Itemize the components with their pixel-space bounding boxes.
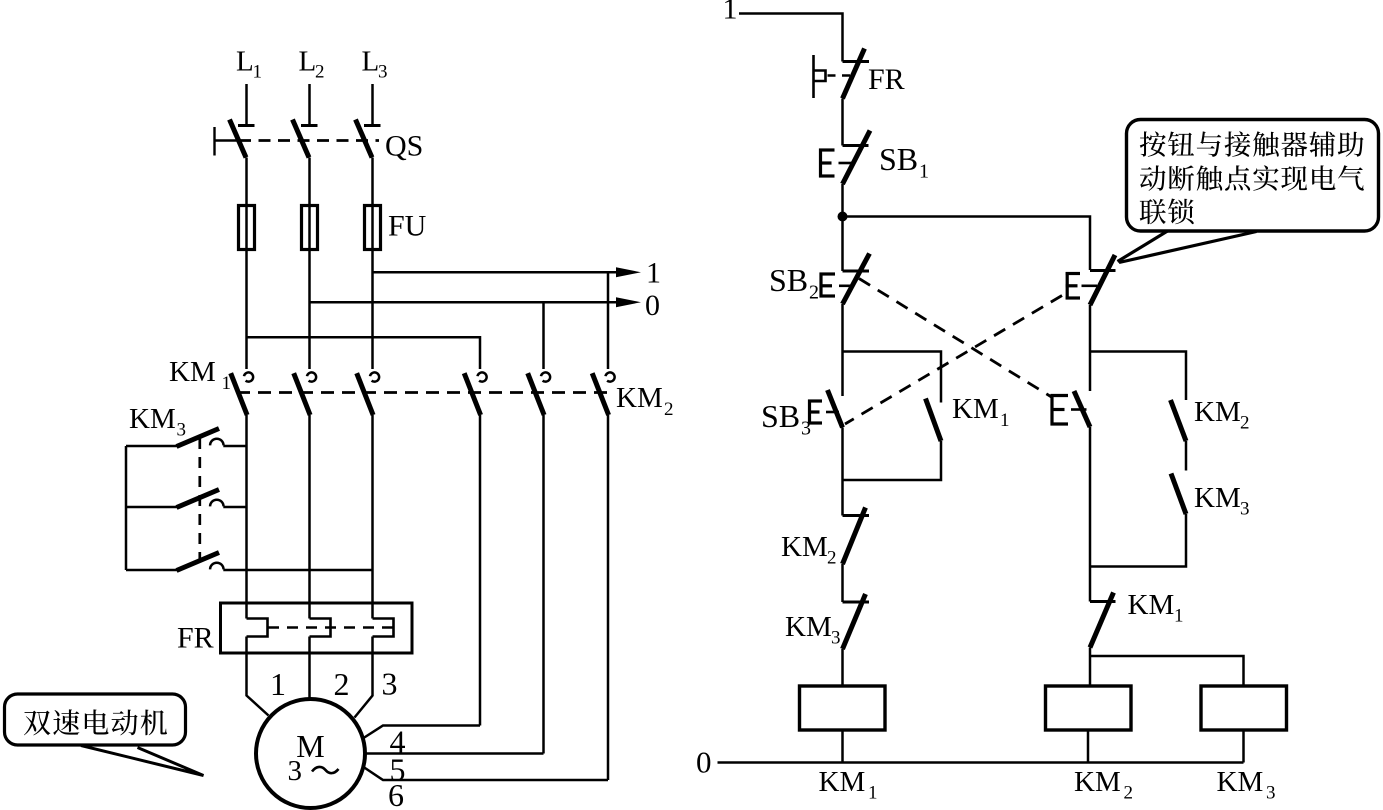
svg-text:0: 0 [645,289,660,322]
wire KM2 pole1 down [479,415,482,726]
wire branch to coil KM3 [1090,656,1244,686]
wire bus1 drop to KM2 [607,272,610,369]
wire node A to right branch [843,217,1091,271]
wire phase3 down [371,415,374,619]
svg-text:KM: KM [1217,766,1264,798]
svg-text:2: 2 [1240,413,1250,434]
contactor KM2 pole2 [541,372,550,381]
contactor KM2 pole3 [606,372,615,381]
fuse FU 3 [365,206,381,250]
svg-text:QS: QS [385,130,423,163]
fuse FU 2 [302,206,318,250]
wire coil KM2 to bus [1087,730,1090,763]
svg-text:KM: KM [1128,589,1175,621]
coil KM1 [800,686,886,730]
svg-text:2: 2 [1124,783,1134,804]
wire KM3 aux down [1090,514,1186,567]
callout text 双速电动机 [24,711,50,736]
link SB2 to right NO (dashed) [859,279,1052,398]
contactor KM1 pole3 [370,372,379,381]
svg-text:2: 2 [827,548,837,569]
wire SB1-node [841,184,844,217]
svg-text:KM: KM [1194,482,1241,514]
wire top rail [739,14,843,62]
wire self-hold bottom [843,441,942,480]
svg-text:0: 0 [696,745,712,780]
wire bottom rail [718,761,1244,764]
wire interlock down [1089,305,1092,391]
contact NO right blade [1074,391,1090,427]
svg-text:1: 1 [222,373,232,394]
wire phase2 down [308,415,311,619]
button SB2 crossbar [843,270,870,273]
svg-text:2: 2 [334,666,350,702]
contact interlock actuator [1066,272,1069,300]
button SB1 blade [843,131,871,185]
switch QS pole2 blade [293,120,310,158]
svg-text:3: 3 [382,666,398,702]
button SB1 link (dashed) [839,162,854,165]
contact interlock link (dashed) [1082,284,1098,287]
callout line2 动断触点实现电气 [1140,165,1166,190]
svg-text:6: 6 [388,777,404,810]
callout line1 按钮与接触器辅助 [1140,131,1166,156]
button SB2 actuator [819,273,822,298]
wire KM2-KM3 [841,564,844,602]
callout box (dual-speed motor) [5,694,186,745]
coil KM2 [1046,686,1132,730]
wire L1 QS-to-KM1 [245,158,248,370]
KM1-KM2 link (dashed) [237,391,612,394]
contactor KM2 pole1 [478,372,487,381]
relay FR actuator link (dashed) [828,74,852,76]
contact KM3 NC blade [843,594,866,649]
link interlock to SB3 (dashed) [845,296,1062,425]
button SB1 actuator [819,149,822,178]
svg-text:KM: KM [129,403,176,435]
contact NO right actuator [1050,394,1053,426]
svg-text:1: 1 [270,666,286,702]
wire SB3-KM2 [841,428,844,516]
motor M circle [256,699,365,808]
relay FR heater 1 [247,619,268,637]
svg-text:3: 3 [378,62,388,83]
switch QS pole1 fixed bar [238,124,255,127]
contact KM3 NC crossbar [843,601,870,604]
relay FR actuator [812,55,815,98]
callout tail 2 [1118,231,1257,263]
button SB3 actuator [808,400,811,425]
svg-text:SB: SB [879,141,918,177]
wire terminal 4 [364,726,481,739]
wire bus0 drop to KM2 [542,302,545,369]
wire phase1 down [245,415,248,619]
svg-text:KM: KM [1194,396,1241,428]
wire L3 QS-to-KM1 [371,158,374,370]
contact KM3 aux blade [1171,474,1186,515]
arrow bus 0 [616,297,641,307]
callout tail [81,746,204,776]
contactor KM3 pole3 [126,569,177,572]
relay FR box [221,603,413,653]
svg-text:SB: SB [761,398,800,434]
relay FR contact crossbar [843,60,870,63]
button SB2 link (dashed) [839,284,854,287]
svg-text:FR: FR [177,622,214,655]
svg-text:L: L [299,46,317,78]
contactor KM1 pole1 [244,372,253,381]
wire KM2-KM3 branch top [1090,352,1186,401]
svg-text:3: 3 [1266,783,1276,804]
wire KM3-coil [841,649,844,686]
svg-text:2: 2 [315,62,325,83]
wire L3 lead [371,84,374,126]
svg-text:3: 3 [831,628,841,649]
wire NO right down [1089,427,1092,602]
KM3 link (dashed) [198,438,201,562]
relay FR link (dashed) [268,626,393,628]
wire FR-SB1 [841,99,844,146]
wire KM2 pole2 down [542,415,545,754]
contact interlock NC crossbar [1090,269,1116,272]
contact NO right link (dashed) [1071,408,1087,411]
switch QS handle [213,127,215,156]
svg-text:KM: KM [169,356,216,388]
button SB1 crossbar [843,144,869,147]
svg-text:1: 1 [919,161,929,183]
contact KM1 NC crossbar [1090,600,1116,603]
switch QS pole1 blade [230,120,247,158]
wire phase3 to motor [355,637,373,718]
callout line3 联锁 [1140,199,1166,224]
contact KM1 self-hold blade [926,399,942,442]
svg-text:1: 1 [723,0,738,26]
wire coil KM1 to bus [841,730,844,763]
svg-text:3: 3 [177,420,187,441]
wire L2 QS-to-KM1 [308,158,311,370]
node A dot [838,212,848,222]
svg-text:KM: KM [781,531,828,563]
svg-text:KM: KM [616,382,663,414]
wire L2 lead [308,84,311,126]
switch QS pole3 blade [356,120,373,158]
fuse FU 1 [239,206,255,250]
wire KM2 pole3 down [607,415,610,780]
coil KM3 [1201,686,1287,730]
contact interlock NC blade [1090,255,1115,305]
contactor KM1 pole2 [307,372,316,381]
svg-text:3: 3 [1240,499,1250,520]
wire self-hold branch top [843,352,942,403]
wire L1 lead [245,84,248,126]
arrow bus 1 [616,267,641,277]
svg-text:1: 1 [646,257,661,290]
svg-text:3: 3 [801,418,811,440]
svg-text:1: 1 [253,62,263,83]
wire terminal 6 [364,767,609,780]
wire KM2aux-KM3aux [1185,441,1188,471]
svg-text:1: 1 [868,783,878,804]
svg-text:2: 2 [664,399,674,420]
wire terminal 5 [365,752,544,755]
contact KM2 aux blade [1171,400,1187,441]
wire coil KM3 to bus [1242,730,1245,763]
svg-text:FU: FU [388,210,427,243]
wire KM2 feed [247,337,481,369]
wire KM3 bus [125,446,128,570]
svg-text:L: L [236,46,254,78]
switch QS link (dashed) [239,139,379,142]
relay FR contact blade [843,49,865,99]
wire bus 1 [373,271,618,274]
contactor KM3 pole2 [126,506,177,509]
svg-text:KM: KM [952,393,999,425]
button SB2 blade [843,254,870,305]
svg-text:FR: FR [868,63,905,96]
contactor KM3 pole1 [126,445,177,448]
switch QS pole2 fixed bar [301,124,318,127]
wire phase2 to motor [308,637,311,701]
wire bus 0 [310,301,618,304]
svg-text:SB: SB [769,262,808,298]
contact KM1 NC blade [1090,593,1114,648]
relay FR heater 3 [373,619,394,637]
wire phase1 to motor [247,637,269,716]
wire SB2-SB3 [841,304,844,396]
button SB3 link (dashed) [826,411,839,414]
svg-text:1: 1 [1000,410,1010,431]
contact KM2 NC blade [843,508,866,565]
svg-text:L: L [362,46,380,78]
relay FR heater 2 [310,619,331,637]
contact KM2 NC crossbar [843,514,870,517]
svg-text:1: 1 [1174,606,1184,627]
switch QS pole3 fixed bar [364,124,381,127]
svg-text:KM: KM [785,611,832,643]
button SB3 blade [828,390,843,428]
svg-text:2: 2 [809,282,819,304]
wire KM1NC-coil2 [1089,648,1092,687]
callout box (interlock note) [1127,120,1379,232]
wire node A to SB2 [841,217,844,272]
svg-text:3: 3 [288,755,303,787]
svg-text:KM: KM [1074,766,1121,798]
svg-text:KM: KM [819,766,866,798]
